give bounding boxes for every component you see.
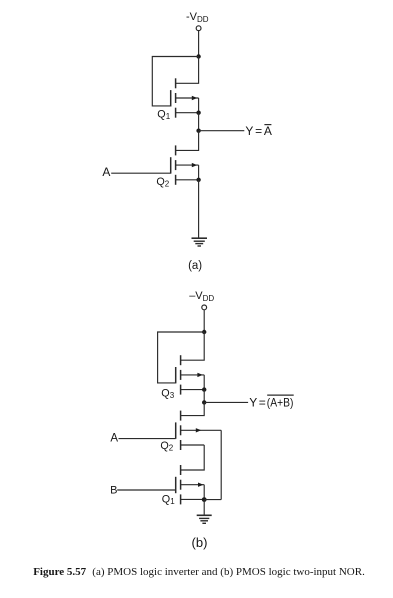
node: VDD junction dot (circuit a)	[196, 54, 200, 58]
svg-text:-VDD: -VDD	[186, 11, 209, 24]
wire: output lead to label (circuit a)	[199, 130, 245, 132]
overbar over A (circuit a)	[264, 124, 271, 126]
wire: Q2 body to source (circuit a)	[198, 165, 200, 180]
svg-text:Q1: Q1	[162, 493, 175, 506]
label Q1 (circuit b)	[162, 493, 175, 506]
label -VDD (circuit b)	[189, 290, 214, 303]
wire: Q1 source to output node (circuit a)	[198, 113, 200, 131]
wire: input B lead (circuit b)	[117, 489, 176, 491]
wire: Q2 source down to Q1 drain (circuit b)	[181, 445, 205, 470]
svg-text:Q2: Q2	[156, 176, 169, 189]
svg-text:Q2: Q2	[160, 440, 173, 453]
wire: Q2 body down right side to ground node (circuit b)	[220, 430, 222, 499]
svg-text:(b): (b)	[192, 535, 208, 550]
wire: Q2 source to ground (circuit a)	[198, 180, 200, 238]
svg-text:=: =	[255, 124, 262, 138]
wire: Q1 body to source (circuit a)	[198, 98, 200, 113]
wire: Q3 body to source (circuit b)	[203, 375, 205, 390]
node: VDD junction dot (circuit b)	[202, 330, 206, 334]
wire: rail VDD node to Q3 drain corner (circuit b)	[181, 332, 205, 360]
node: output dot Y (circuit a)	[196, 129, 200, 133]
supply terminal circle -VDD (circuit a)	[196, 26, 201, 31]
svg-text:(a): (a)	[188, 260, 202, 272]
caption: Figure 5.57	[33, 566, 365, 578]
svg-text:Figure 5.57: Figure 5.57	[33, 566, 86, 578]
svg-text:=: =	[259, 395, 266, 409]
svg-text:(a) PMOS logic inverter and (b: (a) PMOS logic inverter and (b) PMOS log…	[92, 566, 365, 578]
transistor Q2 (circuit a)	[171, 145, 199, 184]
ground (circuit b)	[197, 515, 212, 523]
svg-text:B: B	[110, 485, 117, 497]
svg-text:A: A	[110, 433, 118, 445]
label input B (circuit b)	[110, 485, 117, 497]
svg-text:A: A	[102, 165, 110, 179]
svg-text:Y: Y	[249, 395, 257, 409]
node: ground node dot (circuit b)	[202, 497, 207, 502]
label (b)	[192, 535, 208, 550]
node: Q3 source dot (circuit b)	[202, 387, 206, 391]
node: Q2 source dot (circuit a)	[196, 178, 200, 182]
node: Q1 source dot (circuit a)	[196, 111, 200, 115]
wire: VDD terminal to VDD node (circuit b)	[203, 310, 205, 332]
supply terminal circle -VDD (circuit b)	[202, 305, 207, 310]
svg-text:–VDD: –VDD	[189, 290, 214, 303]
wire: output node to Q2 drain corner (circuit a)	[176, 131, 199, 151]
wire: gate feedback loop of Q1 (circuit a)	[152, 57, 198, 106]
label Q1 (circuit a)	[157, 108, 170, 121]
svg-text:Q3: Q3	[161, 387, 174, 400]
label Q2 (circuit b)	[160, 440, 173, 453]
ground (circuit a)	[192, 238, 208, 246]
wire: ground node down to ground symbol (circuit b)	[203, 500, 205, 516]
overbar over (A+B) (circuit b)	[267, 394, 294, 396]
transistor Q1 (circuit b)	[176, 465, 205, 504]
label Y = A-bar (circuit a)	[245, 124, 272, 138]
wire: output lead to label (circuit b)	[204, 401, 248, 403]
wire: Q3 source to output node (circuit b)	[203, 390, 205, 403]
transistor Q1 (circuit a)	[171, 78, 199, 117]
wire: ground node to right-side vertical (circuit b)	[204, 499, 221, 501]
wire: input A lead (circuit b)	[119, 438, 176, 440]
label Q2 (circuit a)	[156, 176, 169, 189]
svg-text:A: A	[264, 124, 272, 138]
wire: Q1 body to source node (circuit b)	[203, 485, 205, 500]
svg-text:Y: Y	[245, 124, 253, 138]
wire: rail VDD node to Q1 drain corner (circuit a)	[176, 57, 199, 84]
label input A (circuit b)	[110, 433, 118, 445]
svg-text:Q1: Q1	[157, 108, 170, 121]
wire: output node to Q2 drain corner (circuit b)	[181, 402, 205, 415]
label -VDD (circuit a)	[186, 11, 209, 24]
label input A (circuit a)	[102, 165, 110, 179]
transistor Q3 (circuit b)	[176, 355, 205, 394]
wire: gate feedback loop of Q3 (circuit b)	[158, 332, 205, 383]
node: output dot Y (circuit b)	[202, 400, 206, 404]
label Y = (A+B)-bar (circuit b)	[249, 395, 293, 409]
transistor Q2 (circuit b)	[176, 411, 222, 450]
wire: input A lead (circuit a)	[111, 172, 171, 174]
svg-text:(A+B): (A+B)	[267, 395, 294, 409]
label (a)	[188, 260, 202, 272]
label Q3 (circuit b)	[161, 387, 174, 400]
wire: VDD terminal to VDD node (circuit a)	[198, 31, 200, 57]
